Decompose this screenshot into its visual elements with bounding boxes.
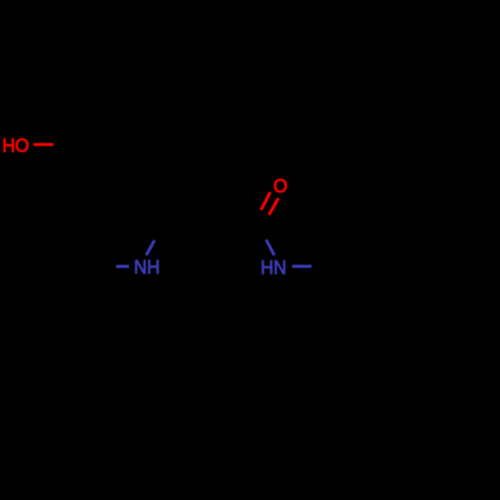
svg-text:NH: NH <box>134 258 160 279</box>
svg-text:HN: HN <box>261 258 287 279</box>
wire HN right half-bond <box>292 265 311 268</box>
carbonyl oxygen label O <box>273 177 287 198</box>
svg-text:HO: HO <box>2 136 29 157</box>
amide label HN <box>261 258 287 279</box>
wire NH left half-bond <box>116 265 129 268</box>
hydroxyl label HO <box>2 136 29 157</box>
wire NH upper-right half-bond <box>146 240 154 255</box>
amine label NH <box>134 258 160 279</box>
wire C=O double bond inner line <box>261 192 270 210</box>
wire C=O double bond main line <box>269 198 279 215</box>
wire HO-C half-bond <box>34 143 54 146</box>
wire HN upper-left half-bond <box>266 240 274 256</box>
svg-text:O: O <box>273 177 287 198</box>
